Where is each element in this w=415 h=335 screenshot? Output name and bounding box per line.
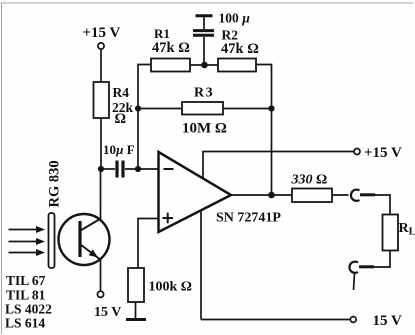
light arrow 1	[9, 229, 38, 231]
op-amp U1 triangle	[159, 152, 232, 232]
svg-text:47k Ω: 47k Ω	[152, 40, 190, 56]
wire op-amp V- supply down	[200, 211, 202, 320]
svg-text:TIL 67: TIL 67	[6, 273, 46, 288]
svg-text:100 µ: 100 µ	[219, 11, 251, 26]
transistor collector stroke	[81, 219, 101, 231]
light arrow 2	[9, 241, 38, 243]
wire emitter to terminal	[100, 259, 102, 291]
wire R4 to collector junction	[100, 118, 102, 169]
svg-text:330 Ω: 330 Ω	[291, 173, 328, 188]
node junction dot (C 10u / R3 branch / op-amp minus)	[135, 166, 141, 172]
capacitor C 10uF	[115, 161, 118, 178]
resistor R1	[151, 59, 190, 72]
node +15V right terminal	[354, 149, 360, 155]
node +15V top terminal	[98, 43, 104, 49]
resistor R4	[94, 82, 110, 118]
wire jack J2 tail	[354, 274, 355, 291]
transistor emitter stroke with arrow	[81, 245, 100, 260]
svg-text:LS 4022: LS 4022	[5, 302, 52, 317]
svg-text:100k Ω: 100k Ω	[149, 280, 193, 295]
svg-text:RG 830: RG 830	[47, 160, 63, 207]
node 15V emitter terminal	[97, 291, 103, 297]
wire op-amp V+ supply to +15V rail	[203, 152, 354, 179]
light arrow 3	[9, 252, 38, 254]
op-amp plus sign	[163, 217, 174, 219]
resistor R 100k	[128, 268, 144, 302]
node 15V bottom terminal	[350, 317, 356, 323]
svg-text:15 V: 15 V	[94, 305, 121, 320]
wire capacitor to inverting-input junction and op-amp	[125, 168, 159, 170]
svg-text:R3: R3	[194, 86, 214, 101]
svg-text:10M Ω: 10M Ω	[182, 121, 227, 137]
svg-text:15 V: 15 V	[373, 313, 402, 329]
svg-text:R1: R1	[154, 26, 170, 41]
ground	[135, 302, 137, 319]
svg-text:R4: R4	[113, 85, 130, 100]
wire R3 left lead	[138, 108, 182, 110]
resistor RL	[383, 215, 399, 251]
svg-text:47k Ω: 47k Ω	[221, 41, 259, 57]
connector jack J1 (top)	[351, 190, 360, 201]
connector jack J2 (bottom)	[359, 265, 374, 268]
node junction dot (R4 / C 10u / collector)	[98, 166, 104, 172]
wire op-amp output	[231, 194, 292, 196]
wire bottom rail	[201, 319, 350, 321]
svg-text:+15 V: +15 V	[364, 145, 402, 161]
svg-text:Ω: Ω	[115, 111, 127, 127]
wire +15V terminal to R4	[100, 49, 102, 82]
node junction dot R3 right	[268, 105, 274, 111]
resistor R 330	[292, 189, 332, 203]
filter RG 830	[49, 213, 55, 268]
node junction dot (R1 / R2 / C 100u)	[201, 62, 208, 69]
wire RL to bottom jack	[359, 251, 390, 268]
transistor base bar	[78, 221, 81, 257]
op-amp minus sign	[164, 168, 174, 170]
wire + input to 100k	[138, 219, 159, 269]
wire 330 to jack	[332, 194, 349, 196]
wire R3 right lead	[223, 108, 272, 110]
svg-text:TIL 81: TIL 81	[6, 288, 46, 303]
node junction dot R3 left	[135, 105, 141, 111]
wire jack to RL	[375, 195, 390, 215]
resistor R3	[182, 102, 223, 115]
svg-text:+15 V: +15 V	[83, 25, 121, 41]
wire vertical branch x=138 (R1 left, R3 left, minus input)	[138, 65, 151, 170]
capacitor C 100u	[203, 37, 205, 65]
wire collector into transistor	[100, 169, 102, 220]
resistor R2	[218, 59, 256, 72]
wire junction to capacitor left plate	[101, 168, 115, 170]
svg-text:10µ F: 10µ F	[103, 142, 135, 157]
svg-text:RL: RL	[399, 221, 415, 238]
wire R2 right to vertical branch	[256, 65, 272, 196]
wire R1 to center junction	[190, 64, 218, 66]
svg-text:SN 72741P: SN 72741P	[216, 211, 281, 226]
svg-text:LS 614: LS 614	[5, 316, 45, 331]
transistor Q1 phototransistor circle	[59, 214, 110, 265]
node output junction dot	[268, 192, 275, 199]
